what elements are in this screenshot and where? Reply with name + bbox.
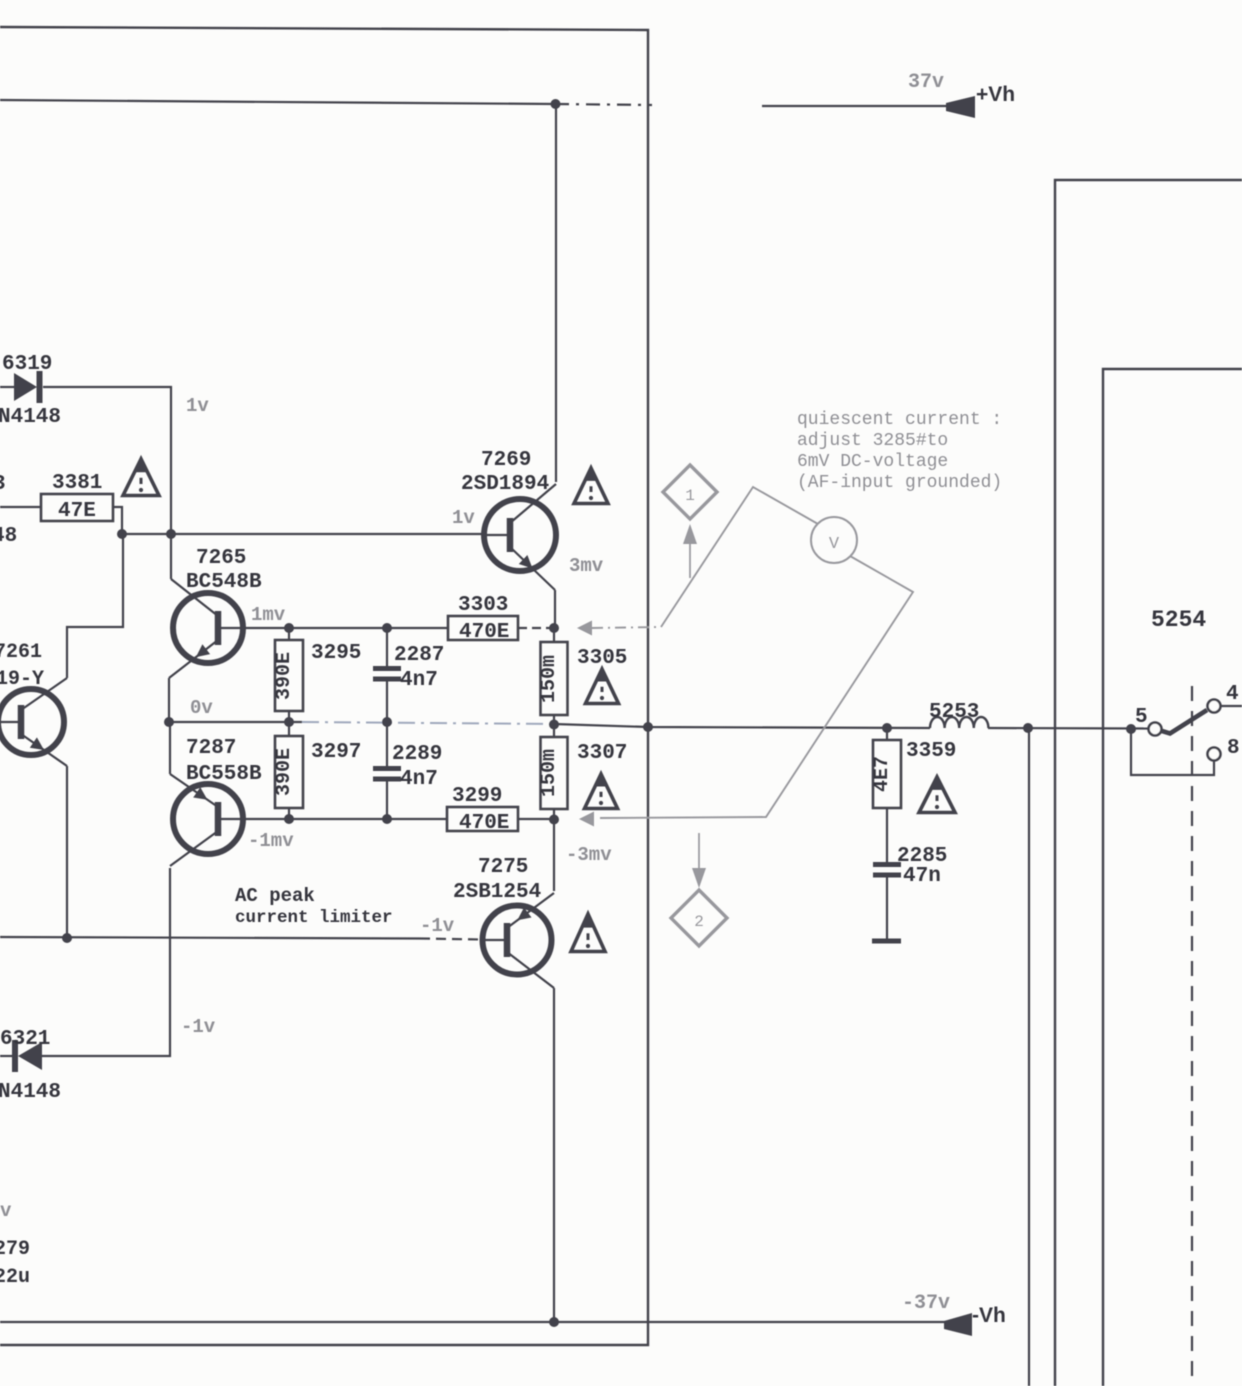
svg-text:47E: 47E — [58, 500, 96, 523]
svg-text:4: 4 — [1226, 683, 1239, 706]
svg-text:2287: 2287 — [394, 644, 444, 667]
svg-text:3307: 3307 — [577, 742, 627, 765]
svg-text:7265: 7265 — [196, 547, 246, 570]
svg-text:3mv: 3mv — [569, 555, 604, 577]
svg-text:2SB1254: 2SB1254 — [453, 881, 541, 904]
svg-text:6321: 6321 — [0, 1028, 50, 1051]
svg-text:BC558B: BC558B — [186, 763, 262, 786]
svg-text:N4148: N4148 — [0, 1081, 61, 1104]
svg-text:4n7: 4n7 — [400, 768, 438, 791]
svg-text:-3mv: -3mv — [566, 844, 612, 866]
svg-text:3359: 3359 — [906, 740, 956, 763]
svg-text:1mv: 1mv — [251, 604, 286, 626]
svg-text:47n: 47n — [903, 865, 941, 888]
svg-text:AC peak: AC peak — [235, 885, 315, 907]
svg-text:current limiter: current limiter — [235, 908, 393, 928]
svg-text:5254: 5254 — [1151, 607, 1206, 633]
svg-text:19-Y: 19-Y — [0, 668, 44, 691]
svg-text:-1v: -1v — [420, 915, 455, 937]
svg-text:N4148: N4148 — [0, 406, 61, 429]
svg-text:3297: 3297 — [311, 741, 361, 764]
svg-text:2289: 2289 — [392, 743, 442, 766]
svg-text:3: 3 — [0, 473, 6, 496]
svg-text:7261: 7261 — [0, 641, 42, 664]
svg-text:2SD1894: 2SD1894 — [461, 473, 549, 496]
svg-text:3305: 3305 — [577, 647, 627, 670]
svg-text:4E7: 4E7 — [871, 756, 894, 792]
svg-text:1v: 1v — [452, 507, 475, 529]
svg-text:5253: 5253 — [929, 701, 979, 724]
svg-text:470E: 470E — [459, 812, 509, 835]
svg-text:3303: 3303 — [458, 594, 508, 617]
svg-text:150m: 150m — [538, 655, 561, 703]
svg-text:3299: 3299 — [452, 785, 502, 808]
svg-text:-1v: -1v — [181, 1016, 216, 1038]
svg-text:48: 48 — [0, 525, 17, 548]
svg-text:0v: 0v — [190, 697, 213, 719]
svg-text:279: 279 — [0, 1238, 30, 1261]
svg-text:-37v: -37v — [902, 1292, 950, 1315]
svg-text:150m: 150m — [538, 749, 561, 797]
svg-text:3295: 3295 — [311, 642, 361, 665]
svg-text:5: 5 — [1135, 706, 1148, 729]
svg-text:6mV DC-voltage: 6mV DC-voltage — [797, 452, 948, 472]
svg-text:470E: 470E — [459, 621, 509, 644]
svg-text:v: v — [0, 1200, 12, 1222]
svg-text:+Vh: +Vh — [976, 83, 1015, 106]
svg-text:6319: 6319 — [2, 353, 52, 376]
svg-text:quiescent current :: quiescent current : — [797, 410, 1002, 430]
svg-text:1v: 1v — [186, 395, 209, 417]
svg-text:(AF-input grounded): (AF-input grounded) — [797, 473, 1002, 493]
svg-text:7269: 7269 — [481, 449, 531, 472]
svg-text:7287: 7287 — [186, 737, 236, 760]
svg-text:37v: 37v — [908, 71, 944, 94]
svg-text:2: 2 — [694, 913, 704, 931]
svg-text:390E: 390E — [273, 652, 296, 700]
svg-text:1: 1 — [685, 487, 695, 505]
svg-text:3381: 3381 — [52, 472, 102, 495]
svg-text:390E: 390E — [273, 748, 296, 796]
svg-text:22u: 22u — [0, 1266, 30, 1289]
svg-text:4n7: 4n7 — [400, 669, 438, 692]
svg-text:BC548B: BC548B — [186, 571, 262, 594]
svg-text:7275: 7275 — [478, 856, 528, 879]
svg-text:adjust 3285#to: adjust 3285#to — [797, 431, 948, 451]
svg-text:V: V — [829, 535, 840, 554]
svg-text:-1mv: -1mv — [248, 830, 294, 852]
svg-text:-Vh: -Vh — [972, 1304, 1006, 1327]
svg-text:8: 8 — [1227, 737, 1240, 760]
